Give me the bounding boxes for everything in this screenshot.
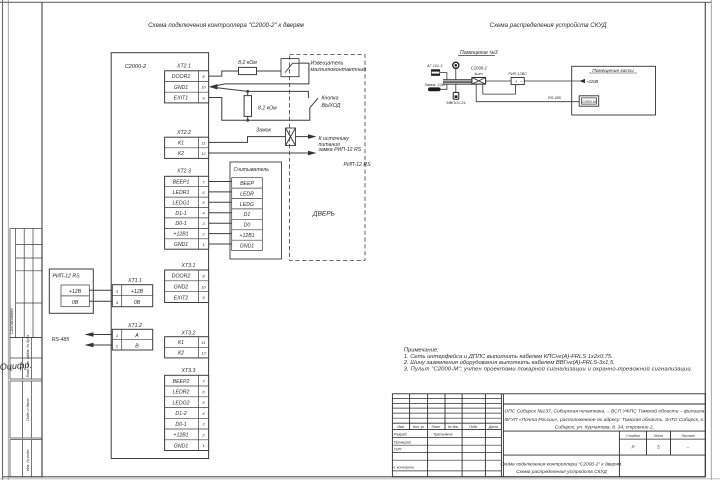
wire circle to bus <box>455 69 457 80</box>
svg-text:0В: 0В <box>134 300 141 306</box>
svg-text:МВПО1-24: МВПО1-24 <box>447 101 466 105</box>
svg-text:ХТ3.3: ХТ3.3 <box>181 368 196 374</box>
svg-text:0В: 0В <box>72 300 79 306</box>
svg-text:Изм.: Изм. <box>397 425 404 429</box>
wire D1-1 to reader <box>209 212 232 214</box>
wire resistor R1 to magnetocontact <box>257 70 282 72</box>
svg-text:ХТ2.2: ХТ2.2 <box>176 130 191 136</box>
svg-text:Р: Р <box>632 444 635 449</box>
wire +12V1 to reader <box>209 233 232 235</box>
svg-text:GND1: GND1 <box>240 244 255 250</box>
svg-text:ГИП: ГИП <box>394 448 402 452</box>
svg-text:РИП-12ВС: РИП-12ВС <box>508 72 527 76</box>
svg-text:D0-1: D0-1 <box>175 221 186 227</box>
node junction dot R2 top <box>246 90 249 93</box>
svg-text:–: – <box>686 444 690 449</box>
node Pomeshchenie No3 label <box>458 50 498 56</box>
controller C2000-2 crossed box <box>471 66 488 85</box>
svg-text:Подп. и дата: Подп. и дата <box>26 399 30 422</box>
svg-text:ХТ2.3: ХТ2.3 <box>176 169 191 175</box>
svg-text:D1-2: D1-2 <box>175 411 186 417</box>
node GND1 arrowhead <box>209 84 218 89</box>
node lock power labels <box>318 136 372 168</box>
left margin stamp table <box>10 229 42 338</box>
wire LEDR1 to reader <box>209 191 232 193</box>
wire RS-485 C2000-2 to C2000-M <box>476 84 579 102</box>
exit button switch <box>310 96 341 109</box>
svg-text:EXIT1: EXIT1 <box>174 96 189 102</box>
svg-text:LEDR1: LEDR1 <box>173 190 190 196</box>
wire lock to power source arrow <box>296 134 317 139</box>
svg-text:С2000-М: С2000-М <box>582 100 596 104</box>
svg-text:2. Шину заземления оборудовани: 2. Шину заземления оборудования выполнит… <box>403 360 615 366</box>
wire EXIT1 pin 9 to exit button <box>209 98 310 121</box>
svg-text:8,2 кОм: 8,2 кОм <box>258 106 277 112</box>
wire DOOR1 pin 8 to resistor R1 <box>209 71 239 76</box>
terminal block XT2.2 <box>165 130 209 158</box>
wire RIP 0V to XT1.1 pin 4 <box>89 300 112 302</box>
svg-text:Сибирск, ул. Курчатова, д. 34,: Сибирск, ул. Курчатова, д. 34, строение … <box>555 424 654 430</box>
svg-text:Проверил: Проверил <box>394 440 412 444</box>
terminal block XT1.2 <box>112 323 152 350</box>
wire RS-485 A arrow to XT1.2 pin 1 <box>85 332 113 337</box>
lock device icon <box>428 87 441 91</box>
title block drawing name <box>500 462 622 475</box>
wire C2000-2 to RIP-12 <box>486 80 512 82</box>
svg-text:1: 1 <box>116 333 118 338</box>
svg-text:К1: К1 <box>178 141 184 147</box>
svg-text:Замок -12В: Замок -12В <box>425 83 445 87</box>
card reader device icon <box>431 70 439 76</box>
svg-text:BEEP: BEEP <box>240 181 254 187</box>
svg-text:Считыватель: Считыватель <box>234 167 270 173</box>
svg-text:1: 1 <box>202 443 204 448</box>
svg-text:~220В: ~220В <box>586 79 598 84</box>
svg-text:РИП-12 RS: РИП-12 RS <box>53 274 81 280</box>
terminal block XT3.2 <box>165 331 209 358</box>
cable bus <box>443 80 472 85</box>
svg-text:С2000-2: С2000-2 <box>471 66 488 71</box>
svg-text:BEEP2: BEEP2 <box>173 379 190 385</box>
svg-text:ВЫХОД: ВЫХОД <box>322 103 341 109</box>
svg-text:Согласовано: Согласовано <box>9 308 14 334</box>
controller C2000-2 box <box>111 53 208 459</box>
terminal block XT3.3 <box>165 368 209 451</box>
svg-text:+12В1: +12В1 <box>173 433 188 439</box>
svg-text:+12В: +12В <box>131 289 144 295</box>
power supply RIP-12 RS box <box>49 269 93 313</box>
svg-text:+12В: +12В <box>69 289 82 295</box>
svg-text:Схема подключения контроллера: Схема подключения контроллера "С2000-2" … <box>500 462 622 468</box>
svg-text:GND1: GND1 <box>174 85 189 91</box>
svg-text:+12В1: +12В1 <box>173 232 188 238</box>
svg-text:D1-1: D1-1 <box>175 211 186 217</box>
console C2000-M box <box>579 96 599 106</box>
wire K1 pin 11 to lock <box>209 137 286 143</box>
title block signature rows <box>392 433 453 470</box>
svg-text:Извещатель: Извещатель <box>311 61 344 67</box>
svg-text:Схема распределения устройств: Схема распределения устройств СКУД <box>516 468 607 475</box>
svg-text:К2: К2 <box>178 351 184 357</box>
svg-text:RS-485: RS-485 <box>548 96 562 100</box>
power supply RIP-12V box <box>508 72 527 84</box>
notes <box>403 348 693 373</box>
svg-text:В: В <box>135 344 139 350</box>
room box Pomeshchenie kassy <box>572 66 656 115</box>
svg-text:С2000-2: С2000-2 <box>125 64 147 70</box>
svg-text:LEDG1: LEDG1 <box>172 200 189 206</box>
title block header texts <box>397 425 498 429</box>
door boundary dashed <box>290 55 366 261</box>
wire RS-485 B arrow to XT1.2 pin 2 <box>85 343 113 348</box>
svg-text:№ док.: № док. <box>448 425 459 429</box>
wire GND1 to reader <box>209 243 232 245</box>
svg-text:Инв. № дубл.: Инв. № дубл. <box>26 334 30 356</box>
resistor R2 8,2 kOhm vertical <box>244 91 277 120</box>
svg-text:D0: D0 <box>244 223 251 229</box>
svg-text:11: 11 <box>201 140 205 145</box>
svg-text:4шт: 4шт <box>474 72 482 76</box>
svg-text:Лист: Лист <box>653 434 663 438</box>
wire RIP +12V to XT1.1 pin 3 <box>89 289 112 291</box>
svg-text:Разраб.: Разраб. <box>394 433 408 437</box>
svg-text:1: 1 <box>202 242 204 247</box>
svg-text:Инв. № подл.: Инв. № подл. <box>26 449 30 471</box>
svg-text:D1: D1 <box>244 212 251 218</box>
title block stage cells <box>626 434 694 438</box>
svg-text:11: 11 <box>201 340 205 345</box>
reader box Schityvatel <box>230 162 282 259</box>
wire magnetocontact return to GND1 pin 10 <box>211 63 309 87</box>
svg-text:ОПС Сибирск №137, Сибирская пе: ОПС Сибирск №137, Сибирская печатника, –… <box>504 407 704 414</box>
svg-text:магнитоконтактный: магнитоконтактный <box>311 66 367 73</box>
svg-text:GND1: GND1 <box>174 242 189 248</box>
svg-text:Дата: Дата <box>488 425 498 429</box>
svg-text:Схема подключения контроллера: Схема подключения контроллера "С2000-2" … <box>148 22 305 29</box>
svg-text:ХТ1.1: ХТ1.1 <box>127 278 142 284</box>
terminal block XT1.1 <box>112 278 152 307</box>
svg-text:8,2 кОм: 8,2 кОм <box>238 60 257 66</box>
svg-text:10: 10 <box>201 85 206 90</box>
svg-text:3. Пульт "С2000-М"; учтен прое: 3. Пульт "С2000-М"; учтен проектами пожа… <box>404 366 693 373</box>
svg-text:АГ 101-3: АГ 101-3 <box>426 64 443 68</box>
svg-text:А: А <box>134 333 139 339</box>
wire LEDG1 to reader <box>209 201 232 203</box>
svg-text:Помещение №3: Помещение №3 <box>460 50 498 56</box>
svg-text:LEDR: LEDR <box>240 191 254 197</box>
svg-text:12: 12 <box>201 151 206 156</box>
svg-text:К1: К1 <box>178 340 184 346</box>
svg-text:LEDR2: LEDR2 <box>173 390 190 396</box>
terminal block XT2.3 <box>165 169 209 250</box>
wire loop RIP bottom to C2000-2 bottom <box>483 84 516 94</box>
left margin strips <box>10 338 42 477</box>
svg-text:D0-1: D0-1 <box>175 422 186 428</box>
svg-text:BEEP1: BEEP1 <box>173 180 190 186</box>
lock YA1 <box>256 127 296 145</box>
svg-text:Лист: Лист <box>431 425 441 429</box>
svg-text:−: − <box>520 79 523 84</box>
svg-text:ХТ2.1: ХТ2.1 <box>176 64 191 70</box>
terminal block XT3.1 <box>165 263 209 303</box>
svg-text:DOOR1: DOOR1 <box>172 74 191 80</box>
svg-text:RS-485: RS-485 <box>52 337 70 343</box>
wire RIP-12 to 220V arrow <box>524 79 598 84</box>
svg-text:Кнопка: Кнопка <box>322 96 339 102</box>
svg-text:10: 10 <box>201 284 206 289</box>
svg-text:LEDG: LEDG <box>240 202 254 208</box>
svg-text:GND1: GND1 <box>174 443 189 449</box>
node junction dot R2 bottom <box>246 119 249 122</box>
svg-text:Кол. уч: Кол. уч <box>413 425 424 429</box>
svg-text:GND2: GND2 <box>174 285 189 291</box>
svg-text:DOOR2: DOOR2 <box>172 274 191 280</box>
svg-text:Примечание:: Примечание: <box>404 348 439 354</box>
svg-text:Схема распределения устройств: Схема распределения устройств СКУД <box>490 22 608 29</box>
wire lock to bus <box>441 84 447 89</box>
wire bus to MVPO-24 <box>455 84 457 92</box>
svg-text:Подп.: Подп. <box>469 425 478 429</box>
svg-text:К2: К2 <box>178 151 184 157</box>
svg-text:Листов: Листов <box>680 434 694 438</box>
svg-text:ХТ1.2: ХТ1.2 <box>127 323 142 329</box>
svg-text:Замок: Замок <box>256 127 272 133</box>
svg-text:1. Сеть интерфейса и ДПЛС выпо: 1. Сеть интерфейса и ДПЛС выполнить кабе… <box>404 353 613 360</box>
svg-text:ХТ3.2: ХТ3.2 <box>181 331 196 337</box>
svg-text:+: + <box>515 79 518 84</box>
svg-text:РИП-12 RS: РИП-12 RS <box>344 162 372 168</box>
wire K2 pin 12 to power source arrow <box>209 151 317 156</box>
reader button icon circle <box>453 62 459 68</box>
svg-text:ХТ3.1: ХТ3.1 <box>181 263 196 269</box>
wire D0-1 to reader <box>209 222 232 224</box>
svg-text:Н. контроль: Н. контроль <box>392 465 414 469</box>
svg-text:EXIT2: EXIT2 <box>174 295 189 301</box>
svg-text:+12В1: +12В1 <box>239 233 254 239</box>
svg-text:замка РИП-12 RS: замка РИП-12 RS <box>318 147 362 153</box>
MVPO-24 device icon <box>453 92 459 99</box>
title block org text <box>504 407 704 430</box>
terminal block XT2.1 <box>165 64 209 103</box>
svg-text:Стадия: Стадия <box>626 434 640 438</box>
resistor R1 8,2 kOhm <box>238 60 257 75</box>
wire BEEP1 to reader <box>209 181 232 183</box>
wire card reader to bus <box>440 73 447 81</box>
magnetocontact detector SMK <box>281 59 366 77</box>
svg-text:12: 12 <box>201 350 206 355</box>
wire GND1 pin 10 to exit button <box>211 87 309 98</box>
svg-text:ФГУП «Почта России», расположе: ФГУП «Почта России», расположенное по ад… <box>504 417 704 423</box>
svg-text:Третьяков: Третьяков <box>433 433 452 437</box>
title block <box>392 394 705 477</box>
svg-text:LEDG2: LEDG2 <box>172 400 189 406</box>
svg-text:ДВЕРЬ: ДВЕРЬ <box>312 210 335 217</box>
